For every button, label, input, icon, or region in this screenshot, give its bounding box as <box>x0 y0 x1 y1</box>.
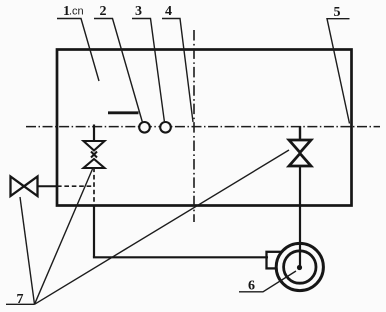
label 5 leader <box>327 19 350 124</box>
node A (small circle on centerline, item 2) <box>139 122 150 133</box>
vertical centerline <box>193 30 195 222</box>
label 6 leader <box>239 271 296 292</box>
pump center dot <box>297 265 302 270</box>
svg-text:3: 3 <box>135 4 142 19</box>
label 1 leader <box>57 19 99 82</box>
label 4 leader <box>162 19 193 123</box>
level bar (short thick mark) <box>108 111 139 114</box>
label 2 leader <box>94 19 143 123</box>
valve V2 stem (right valve upper stem) <box>299 126 301 141</box>
valve V1 (left internal valve, closed, with x mark) <box>84 141 105 168</box>
tank T1 (main vessel outline) <box>57 50 352 206</box>
label 3 leader <box>132 19 165 123</box>
pipe below tank (horizontal run to pump) <box>93 256 268 258</box>
pipe from valve V3 to tank <box>38 185 58 187</box>
external valve V3 (horizontal bowtie at left) <box>11 177 38 197</box>
valve V1 stem (left internal valve upper stem) <box>93 125 95 142</box>
pump P1 inner circle <box>284 251 316 283</box>
label 7 underline <box>6 303 35 305</box>
pump inlet box <box>267 252 284 269</box>
svg-text:4: 4 <box>165 4 172 19</box>
pipe below tank (vertical drop) <box>93 206 95 258</box>
hidden pipe (dashed) from valve V1 down <box>93 168 95 206</box>
hidden pipe (dashed) horizontal at y=186 <box>57 185 94 187</box>
label 7 leader to external valve V3 <box>20 197 35 304</box>
pipe from valve V2 down into pump center <box>299 166 301 267</box>
svg-text:2: 2 <box>100 4 107 19</box>
svg-text:5: 5 <box>334 5 341 20</box>
valve V2 (right valve, bold bowtie) <box>289 140 311 166</box>
pump P1 outer circle <box>276 243 323 290</box>
horizontal centerline <box>26 126 380 128</box>
svg-text:7: 7 <box>17 292 24 307</box>
label 7 leader to valve V2 <box>35 150 290 304</box>
svg-text:6: 6 <box>248 279 255 294</box>
label 7 leader to valve V1 <box>35 169 93 304</box>
svg-text:.cn: .cn <box>69 6 84 18</box>
node B (small circle on centerline, item 3) <box>160 122 171 133</box>
